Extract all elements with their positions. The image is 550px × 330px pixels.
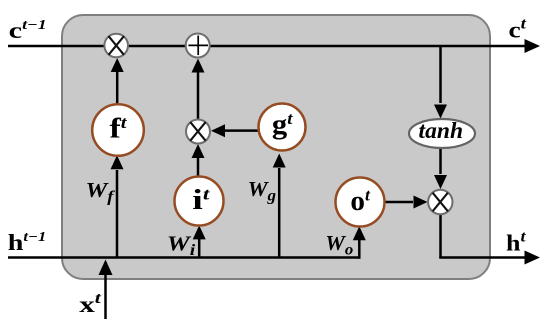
svg-text:tanh: tanh <box>419 118 464 143</box>
